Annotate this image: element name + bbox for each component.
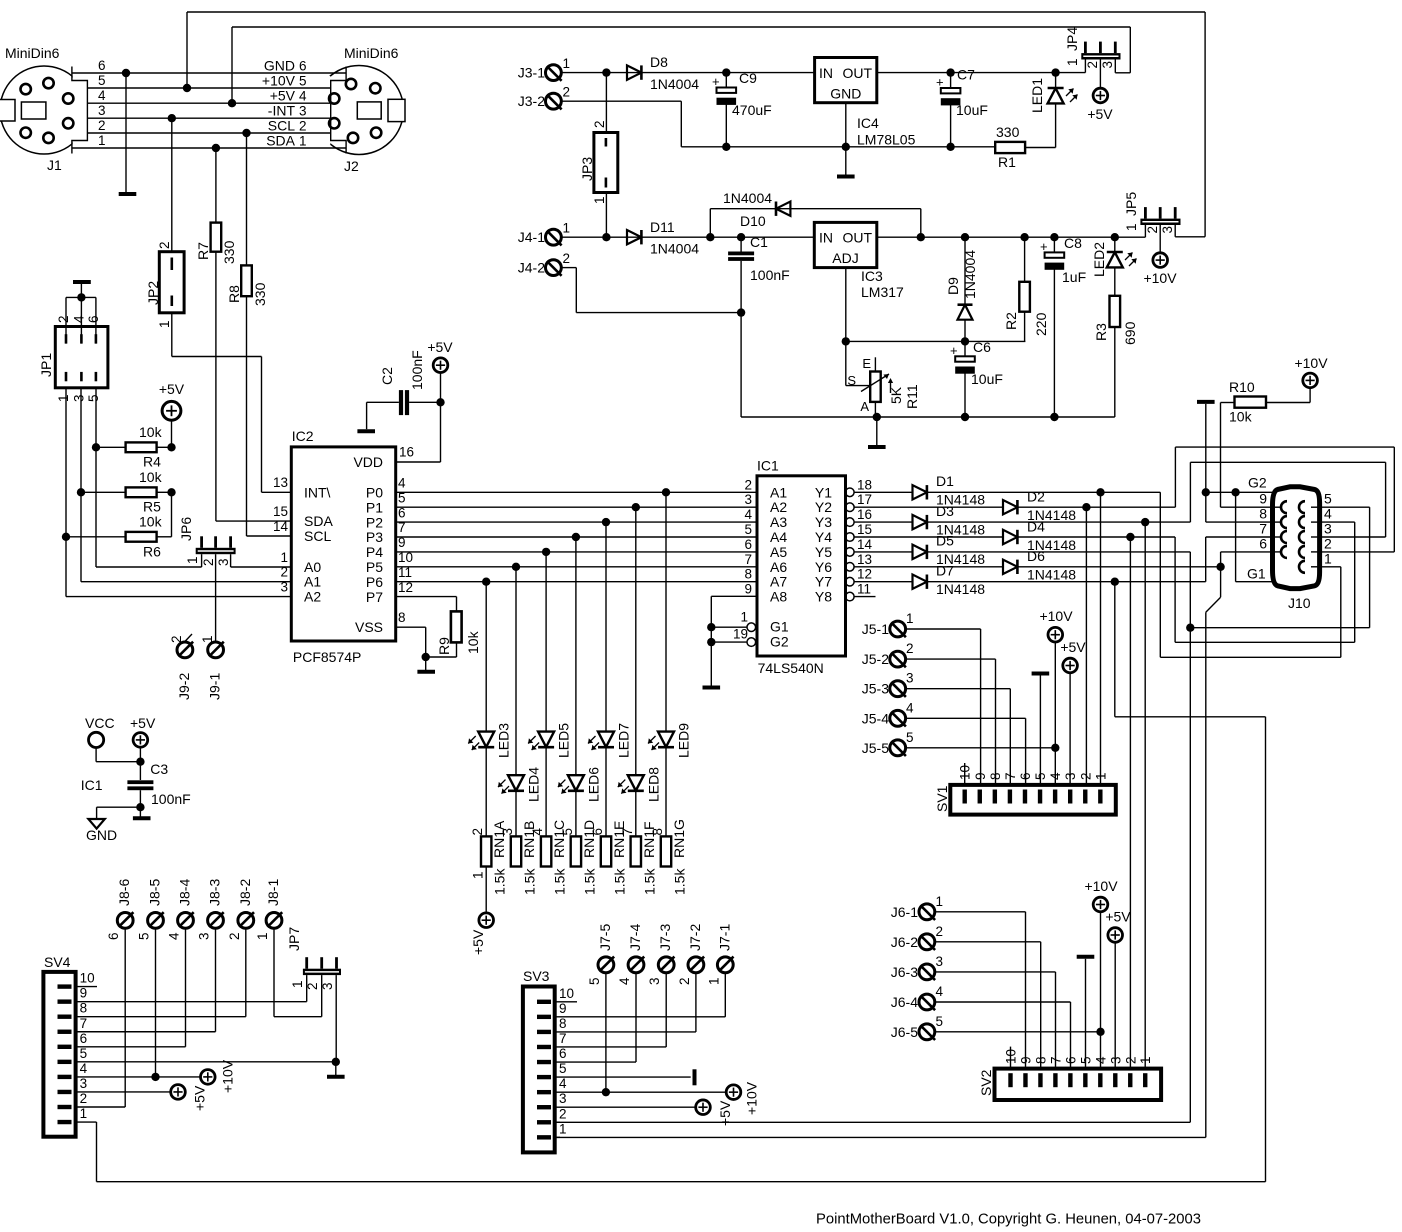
LED LED1 xyxy=(1051,68,1059,76)
svg-text:14: 14 xyxy=(273,519,289,534)
svg-text:3: 3 xyxy=(500,828,515,836)
svg-text:6: 6 xyxy=(299,59,307,74)
wire JP4 pin1 xyxy=(1084,60,1086,73)
svg-text:5: 5 xyxy=(587,977,602,985)
wire to GND arrow xyxy=(97,806,141,808)
screw terminal J7-1 xyxy=(717,957,733,973)
svg-text:P1: P1 xyxy=(366,499,383,515)
wire J5-3 to SV1 pin7 xyxy=(906,688,1010,690)
svg-text:+: + xyxy=(712,74,720,89)
svg-text:-INT: -INT xyxy=(268,103,296,119)
svg-text:D9: D9 xyxy=(945,277,961,295)
svg-text:+5V: +5V xyxy=(159,381,185,397)
svg-text:5K: 5K xyxy=(888,386,904,404)
screw terminal J5-2 xyxy=(890,651,906,667)
svg-text:J3-1: J3-1 xyxy=(518,65,545,81)
supply +5V C3 xyxy=(133,733,148,748)
svg-text:4: 4 xyxy=(936,984,944,999)
svg-text:6: 6 xyxy=(1259,535,1267,551)
screw terminal J3-1 xyxy=(546,65,562,81)
svg-text:RN1D: RN1D xyxy=(581,820,597,858)
svg-text:4: 4 xyxy=(1048,772,1063,780)
wire P4 bus xyxy=(396,551,757,553)
svg-text:19: 19 xyxy=(733,627,748,642)
svg-text:7: 7 xyxy=(559,1031,567,1046)
svg-text:RN1C: RN1C xyxy=(551,820,567,858)
svg-text:1: 1 xyxy=(471,871,486,879)
LED LED4 xyxy=(515,567,517,775)
wire -INT row 3 J1-J2 xyxy=(87,117,330,119)
header JP7 xyxy=(303,969,341,975)
svg-text:4: 4 xyxy=(71,315,86,323)
resistor network element RN1F 1.5k xyxy=(631,836,641,866)
svg-text:330: 330 xyxy=(252,282,268,306)
header SV2 xyxy=(995,1069,1162,1100)
screw terminal J3-2 xyxy=(546,93,562,109)
svg-text:VCC: VCC xyxy=(85,715,115,731)
svg-text:D8: D8 xyxy=(650,54,668,70)
svg-text:1: 1 xyxy=(740,610,748,625)
rail bar G2 tie xyxy=(1197,400,1215,404)
wire G2 shell tie xyxy=(1205,404,1207,492)
svg-text:Y7: Y7 xyxy=(815,574,832,590)
wire P5 bus xyxy=(396,566,757,568)
ground C2 xyxy=(357,429,375,433)
svg-text:5: 5 xyxy=(560,828,575,836)
screw terminal J5-4 xyxy=(890,710,906,726)
wire J10 pin1 stub xyxy=(1320,566,1341,568)
J10 pin arcs xyxy=(1281,501,1287,513)
junction JP3 top xyxy=(602,68,610,76)
supply +10V SV4 xyxy=(201,1070,216,1085)
svg-text:J9-1: J9-1 xyxy=(207,673,223,700)
svg-text:+5V: +5V xyxy=(427,339,453,355)
svg-text:1.5k: 1.5k xyxy=(492,868,508,895)
svg-text:C7: C7 xyxy=(957,67,975,83)
svg-text:7: 7 xyxy=(1003,772,1018,780)
svg-text:10k: 10k xyxy=(139,469,163,485)
svg-text:J1: J1 xyxy=(47,157,62,173)
ground trimmer xyxy=(868,445,886,449)
wire +5V row 4 J1-J2 xyxy=(87,102,330,104)
junction D10 branch xyxy=(706,233,714,241)
wire D4 net xyxy=(1017,536,1175,538)
wire SV3 pin3 to +5V xyxy=(555,1106,696,1108)
capacitor C6 10uF xyxy=(964,341,966,356)
svg-text:R10: R10 xyxy=(1229,379,1255,395)
svg-text:1: 1 xyxy=(559,1121,567,1136)
wire SV3 pin6 to J7-4 xyxy=(555,1061,636,1063)
svg-text:G1: G1 xyxy=(1247,566,1266,582)
supply +5V JP4 xyxy=(1093,88,1108,103)
header JP6 xyxy=(196,548,236,554)
capacitor C8 1uF xyxy=(1050,233,1058,241)
svg-text:PCF8574P: PCF8574P xyxy=(293,649,361,665)
svg-text:R7: R7 xyxy=(195,242,211,260)
svg-text:7: 7 xyxy=(1048,1056,1063,1064)
resistor network element RN1D 1.5k xyxy=(571,836,581,866)
wire G1 tie xyxy=(1235,492,1237,581)
svg-text:2: 2 xyxy=(56,315,71,323)
wire J5-1 to SV1 pin9 xyxy=(906,628,980,630)
svg-text:J7-1: J7-1 xyxy=(716,924,732,951)
wire SV3 pin2 xyxy=(555,1121,560,1123)
svg-text:5: 5 xyxy=(86,394,101,402)
wire SV2 pin10 stub xyxy=(1010,1047,1012,1069)
svg-text:G2: G2 xyxy=(770,634,789,650)
IC1 G2 pin xyxy=(747,638,756,647)
regulator IC4 LM78L05 xyxy=(815,58,877,103)
svg-text:5: 5 xyxy=(137,932,152,940)
svg-text:P7: P7 xyxy=(366,589,383,605)
svg-text:1: 1 xyxy=(98,133,106,148)
wire D3 net xyxy=(927,521,1191,523)
wire SV4 pin3 to +5V xyxy=(76,1091,171,1093)
resistor R10 10k xyxy=(1235,397,1267,408)
screw terminal J4-2 xyxy=(546,260,562,276)
wire D7 net xyxy=(927,581,1206,583)
svg-text:P6: P6 xyxy=(366,574,383,590)
connector J2 MiniDin6 xyxy=(315,66,404,155)
header JP5 xyxy=(1140,219,1180,225)
svg-text:+5V: +5V xyxy=(1060,639,1086,655)
ground JP7 xyxy=(327,1075,345,1079)
ground J1 xyxy=(119,192,137,196)
svg-text:10uF: 10uF xyxy=(956,102,988,118)
svg-text:1: 1 xyxy=(280,550,288,565)
wire C2 to VDD xyxy=(397,461,441,463)
svg-text:6: 6 xyxy=(98,58,106,73)
junction C9 xyxy=(722,68,730,76)
wire SV4 pin6 to J8-4 xyxy=(76,1046,186,1048)
wire SV1 pin10 stub xyxy=(964,763,966,785)
svg-text:2: 2 xyxy=(936,924,944,939)
svg-text:+: + xyxy=(936,75,944,90)
svg-text:A1: A1 xyxy=(304,574,321,590)
svg-text:VDD: VDD xyxy=(353,454,383,470)
wire JP5 pin3 xyxy=(1174,225,1176,237)
header SV1 xyxy=(950,785,1116,815)
svg-text:3: 3 xyxy=(197,932,212,940)
svg-text:1.5k: 1.5k xyxy=(612,868,628,895)
svg-text:+5V: +5V xyxy=(130,715,156,731)
svg-text:8: 8 xyxy=(650,828,665,836)
svg-text:4: 4 xyxy=(559,1076,567,1091)
wire A0 JP6 pin3 to IC2 xyxy=(230,554,232,567)
resistor R4 10k xyxy=(126,442,157,452)
junction row4 xyxy=(228,99,236,107)
svg-text:P0: P0 xyxy=(366,485,383,501)
svg-text:74LS540N: 74LS540N xyxy=(758,660,824,676)
svg-text:Y3: Y3 xyxy=(815,514,832,530)
ground SV2 pin5 xyxy=(1077,955,1095,959)
capacitor C9 470uF xyxy=(717,88,737,93)
capacitor C1 100nF xyxy=(737,233,745,241)
ground IC4 xyxy=(837,175,855,179)
svg-text:+10V: +10V xyxy=(744,1081,760,1115)
diode D3 1N4148 xyxy=(854,521,912,523)
wire A1 to IC2 xyxy=(81,581,291,583)
svg-text:LM317: LM317 xyxy=(861,284,904,300)
svg-text:RN1A: RN1A xyxy=(491,820,507,858)
svg-text:C6: C6 xyxy=(973,339,991,355)
screw terminal J7-2 xyxy=(688,957,704,973)
wire SV4 pin1 xyxy=(76,1121,97,1123)
diode D9 1N4004 xyxy=(961,233,969,241)
header JP1 xyxy=(73,280,91,284)
svg-text:Y2: Y2 xyxy=(815,499,832,515)
wire J10 pin4 stub xyxy=(1320,521,1355,523)
svg-text:1: 1 xyxy=(1124,223,1139,231)
svg-text:5: 5 xyxy=(1324,491,1332,507)
wire SDA row 1 J1-J2 xyxy=(72,147,346,149)
svg-text:+5V: +5V xyxy=(192,1085,208,1111)
svg-text:Y4: Y4 xyxy=(815,529,832,545)
svg-text:2: 2 xyxy=(1324,535,1332,551)
wire JP3 vertical xyxy=(605,73,607,133)
svg-text:RN1B: RN1B xyxy=(521,821,537,858)
svg-text:11: 11 xyxy=(857,582,871,597)
svg-text:C2: C2 xyxy=(379,367,395,385)
svg-text:JP3: JP3 xyxy=(579,157,595,181)
wire SV4 pin10 stub xyxy=(76,986,97,988)
svg-text:J4-1: J4-1 xyxy=(518,229,545,245)
supply +5V SV3 xyxy=(696,1100,711,1115)
svg-text:GND: GND xyxy=(264,58,295,74)
svg-text:3: 3 xyxy=(216,558,231,566)
svg-text:IC1: IC1 xyxy=(81,777,103,793)
svg-text:C8: C8 xyxy=(1064,235,1082,251)
svg-text:6: 6 xyxy=(744,537,752,552)
wire +5V top rail xyxy=(232,26,1130,28)
svg-text:J5-4: J5-4 xyxy=(862,710,889,726)
svg-text:RN1E: RN1E xyxy=(611,821,627,858)
svg-text:9: 9 xyxy=(1259,491,1267,507)
svg-text:1N4004: 1N4004 xyxy=(723,190,772,206)
wire JP5 pin2 to +10V xyxy=(1159,225,1161,253)
svg-text:OUT: OUT xyxy=(842,65,872,81)
wire J8-5 down xyxy=(155,929,157,1077)
screw terminal J4-1 xyxy=(546,229,562,245)
svg-text:J8-4: J8-4 xyxy=(177,879,193,906)
wire SCL row 2 J1-J2 xyxy=(87,132,330,134)
ground SV3 pin5 xyxy=(693,1069,697,1085)
svg-text:3: 3 xyxy=(936,954,944,969)
supply +10V SV2 xyxy=(1093,897,1108,912)
screw terminal J7-3 xyxy=(658,957,674,973)
svg-text:+10V: +10V xyxy=(1039,608,1073,624)
svg-text:12: 12 xyxy=(857,567,872,582)
svg-text:1.5k: 1.5k xyxy=(672,868,688,895)
regulator IC3 LM317 xyxy=(814,222,877,267)
svg-text:690: 690 xyxy=(1122,321,1138,345)
svg-text:2: 2 xyxy=(1123,1056,1138,1064)
svg-text:4: 4 xyxy=(167,932,182,940)
svg-text:1N4148: 1N4148 xyxy=(1027,567,1076,583)
wire +10V row 5 J1-J2 xyxy=(87,87,330,89)
svg-text:1: 1 xyxy=(185,556,200,564)
screw terminal J9-1 xyxy=(208,642,224,658)
wire IC4 GND pin xyxy=(845,103,847,177)
svg-text:3: 3 xyxy=(98,103,106,118)
svg-text:R5: R5 xyxy=(143,499,161,515)
supply VCC xyxy=(89,732,104,747)
svg-text:GND: GND xyxy=(830,86,861,102)
ground R9 VSS xyxy=(417,670,435,674)
svg-text:5: 5 xyxy=(1033,772,1048,780)
wire D5 net xyxy=(927,551,1190,553)
svg-text:3: 3 xyxy=(1160,226,1175,234)
svg-text:D6: D6 xyxy=(1027,548,1045,564)
svg-text:J4-2: J4-2 xyxy=(518,260,545,276)
svg-text:J7-3: J7-3 xyxy=(657,924,673,951)
diode D7 1N4148 xyxy=(854,581,912,583)
svg-text:+5V: +5V xyxy=(270,88,296,104)
resistor R9 10k xyxy=(451,611,462,642)
svg-text:J6-4: J6-4 xyxy=(891,994,918,1010)
svg-text:A8: A8 xyxy=(770,589,787,605)
ground GND arrow xyxy=(88,819,104,829)
screw terminal J9-2 xyxy=(177,642,193,658)
wire JP1 pin3 column to A1 xyxy=(80,388,82,582)
svg-text:S: S xyxy=(847,373,856,388)
svg-text:2: 2 xyxy=(470,828,485,836)
svg-text:SDA: SDA xyxy=(266,133,295,149)
svg-text:2: 2 xyxy=(227,932,242,940)
svg-text:J6-5: J6-5 xyxy=(891,1024,918,1040)
svg-text:3: 3 xyxy=(559,1091,567,1106)
wire Y8 stub xyxy=(854,596,875,598)
svg-text:+: + xyxy=(1040,239,1048,254)
svg-text:JP7: JP7 xyxy=(286,927,302,951)
wire SV4 pin2 to J8-6 xyxy=(76,1106,126,1108)
LED LED8 xyxy=(635,507,637,775)
svg-text:9: 9 xyxy=(559,1001,567,1016)
wire LED9 to RN1G xyxy=(665,747,667,836)
svg-text:13: 13 xyxy=(273,475,288,490)
IC1 output bubbles xyxy=(846,488,855,497)
svg-text:4: 4 xyxy=(744,507,752,522)
svg-text:1: 1 xyxy=(906,611,914,626)
screw terminal J7-5 xyxy=(598,957,614,973)
svg-text:A2: A2 xyxy=(770,499,787,515)
svg-text:J8-1: J8-1 xyxy=(265,879,281,906)
svg-text:R11: R11 xyxy=(904,384,920,409)
svg-text:10uF: 10uF xyxy=(971,371,1003,387)
wire GND row 6 J1-J2 xyxy=(72,72,346,74)
svg-text:LED1: LED1 xyxy=(1029,78,1045,113)
svg-text:R2: R2 xyxy=(1003,312,1019,330)
resistor R2 220 xyxy=(1020,233,1028,241)
wire IC3 ADJ xyxy=(845,268,847,342)
svg-text:2: 2 xyxy=(563,85,571,100)
screw terminal J6-1 xyxy=(919,904,935,920)
wire G to ground xyxy=(710,627,712,687)
wire P3 bus xyxy=(396,536,757,538)
svg-text:3: 3 xyxy=(299,104,307,119)
svg-text:6: 6 xyxy=(86,315,101,323)
wire J5-4 to SV1 pin6 xyxy=(906,717,1025,719)
svg-text:6: 6 xyxy=(80,1031,88,1046)
svg-text:JP2: JP2 xyxy=(145,281,161,305)
svg-text:8: 8 xyxy=(744,567,752,582)
wire JP4 pin2 to +5V xyxy=(1099,60,1101,89)
header JP4 xyxy=(1081,53,1120,59)
wire gnd rail top supply xyxy=(681,146,995,148)
wire J6-1 to SV2 pin9 xyxy=(935,911,1025,913)
svg-text:D5: D5 xyxy=(936,533,954,549)
svg-text:J8-3: J8-3 xyxy=(207,879,223,906)
svg-text:18: 18 xyxy=(857,477,872,492)
wire D7 to SV4 pin1 xyxy=(1114,582,1116,717)
wire D5 to SV3 pin2 xyxy=(555,1121,1191,1123)
svg-text:330: 330 xyxy=(221,240,237,264)
svg-text:9: 9 xyxy=(744,582,752,597)
svg-text:D2: D2 xyxy=(1027,489,1045,505)
svg-text:3: 3 xyxy=(71,394,86,402)
svg-text:470uF: 470uF xyxy=(732,102,772,118)
IC1 G1 pin xyxy=(747,623,756,632)
svg-text:10k: 10k xyxy=(139,424,163,440)
svg-text:Y1: Y1 xyxy=(815,484,832,500)
svg-text:7: 7 xyxy=(744,552,752,567)
svg-text:1: 1 xyxy=(56,394,71,402)
svg-text:C1: C1 xyxy=(750,234,768,250)
supply +10V R10 xyxy=(1303,373,1318,388)
svg-text:LED6: LED6 xyxy=(585,767,601,802)
svg-text:3: 3 xyxy=(280,580,288,595)
wire P6 bus xyxy=(396,581,757,583)
svg-text:2: 2 xyxy=(169,635,184,643)
wire JP7 pin3 down xyxy=(335,975,337,1062)
wire J10 pin2 stub xyxy=(1320,551,1395,553)
svg-text:OUT: OUT xyxy=(842,230,872,246)
svg-text:2: 2 xyxy=(559,1106,567,1121)
diode D4 1N4148 xyxy=(854,536,1003,538)
wire JP1 pin1 column to A2 xyxy=(65,388,67,597)
svg-text:G2: G2 xyxy=(1248,475,1267,491)
LED LED2 xyxy=(1111,233,1119,241)
svg-text:6: 6 xyxy=(559,1046,567,1061)
svg-text:A4: A4 xyxy=(770,529,787,545)
svg-text:R1: R1 xyxy=(998,154,1016,170)
svg-text:D11: D11 xyxy=(650,219,675,235)
svg-text:J8-2: J8-2 xyxy=(237,879,253,906)
svg-text:1: 1 xyxy=(936,894,944,909)
svg-text:J6-1: J6-1 xyxy=(891,904,918,920)
svg-text:R8: R8 xyxy=(226,285,242,303)
svg-text:7: 7 xyxy=(1259,521,1267,537)
svg-text:IC2: IC2 xyxy=(292,428,314,444)
wire JP2 to IC2 INT xyxy=(171,313,173,357)
svg-text:1: 1 xyxy=(1065,58,1080,66)
svg-text:4: 4 xyxy=(617,977,632,985)
svg-text:3: 3 xyxy=(647,977,662,985)
svg-text:100nF: 100nF xyxy=(750,267,790,283)
wire SV3 pin4 to +10V xyxy=(555,1091,727,1093)
svg-text:14: 14 xyxy=(857,537,873,552)
svg-text:JP4: JP4 xyxy=(1064,27,1080,51)
svg-text:+10V: +10V xyxy=(1143,270,1177,286)
diode D10 1N4004 xyxy=(775,202,778,216)
ground IC1 enables xyxy=(703,686,721,690)
svg-text:4: 4 xyxy=(98,88,106,103)
wire J3-2 return xyxy=(562,100,682,102)
svg-text:10: 10 xyxy=(1004,1049,1019,1064)
ground C3 xyxy=(133,816,151,820)
resistor network element RN1C 1.5k xyxy=(541,836,551,866)
screw terminal J5-3 xyxy=(890,681,906,697)
